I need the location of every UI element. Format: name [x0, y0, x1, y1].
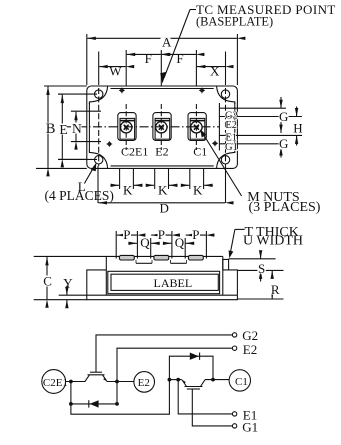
side baseplate — [87, 295, 238, 300]
dim P2 — [151, 234, 171, 236]
side label plate inner — [111, 274, 218, 290]
dim D — [99, 202, 226, 204]
wire G1 — [192, 389, 232, 426]
T/U leader — [235, 228, 245, 230]
terminal centre extension lines — [125, 50, 127, 86]
svg-text:(3 PLACES): (3 PLACES) — [249, 200, 321, 215]
wire rail right of Q1 — [205, 379, 229, 381]
svg-text:G: G — [279, 109, 288, 124]
side terminal bump 3 — [188, 255, 203, 260]
svg-text:K: K — [158, 182, 168, 197]
diode D2 — [89, 400, 99, 407]
diode D1 row — [169, 356, 213, 379]
dim N extension lines — [71, 110, 101, 112]
terminal C2E1 — [42, 370, 66, 394]
mounting hole top-right — [221, 90, 229, 98]
dim C extension line — [34, 299, 87, 301]
dim B — [47, 87, 49, 168]
svg-text:C2E1: C2E1 — [43, 377, 68, 389]
svg-text:E: E — [59, 122, 67, 137]
svg-text:B: B — [46, 121, 56, 137]
dim D extension lines — [97, 166, 99, 203]
svg-text:G1: G1 — [242, 420, 258, 435]
corner boss bottom-right — [217, 150, 235, 168]
terminal G1 — [232, 424, 236, 428]
dim C — [46, 257, 48, 299]
svg-text:W: W — [109, 63, 122, 78]
terminal 2 metal — [155, 118, 170, 139]
terminal E2 — [134, 372, 155, 393]
svg-text:P: P — [192, 227, 199, 242]
side label plate outer — [108, 271, 220, 293]
svg-text:E2: E2 — [225, 120, 237, 131]
dim S — [260, 250, 262, 258]
dim P1 — [117, 234, 137, 236]
node diode2 cathode — [115, 402, 119, 406]
svg-text:F: F — [145, 51, 152, 66]
dim W — [99, 66, 126, 68]
package outer outline — [87, 86, 238, 168]
dim X — [197, 66, 225, 68]
dim K3 — [181, 184, 189, 186]
signal pin E2 — [220, 116, 303, 118]
dim E — [61, 95, 63, 159]
position mark 3 — [107, 141, 113, 147]
horizontal centreline — [62, 126, 219, 128]
svg-text:E2: E2 — [243, 342, 257, 357]
side shelf between pedestals — [136, 262, 152, 264]
terminal 1 screw — [121, 122, 132, 133]
terminal E2 signal — [232, 346, 236, 350]
svg-text:E2: E2 — [155, 144, 168, 158]
terminal 3 centreline — [195, 104, 197, 150]
svg-text:C1: C1 — [235, 376, 248, 388]
svg-text:G1: G1 — [225, 142, 238, 153]
svg-text:(4 PLACES): (4 PLACES) — [45, 188, 114, 203]
node diode2 anode — [69, 402, 73, 406]
signal pin E1 — [220, 134, 303, 136]
dim Y — [66, 286, 68, 295]
side case body — [106, 256, 223, 295]
terminal 2 pedestal — [153, 113, 171, 141]
M nuts leader — [203, 133, 242, 196]
svg-text:X: X — [210, 63, 220, 78]
wire C2E1 to rail — [66, 381, 86, 383]
terminal 3 screw — [191, 122, 202, 133]
wire C2E1 drop — [71, 380, 169, 415]
dim K2 — [146, 184, 154, 186]
signal pin G2 — [220, 107, 287, 109]
svg-text:G: G — [279, 136, 288, 151]
svg-text:U WIDTH: U WIDTH — [243, 233, 303, 248]
mounting hole top-left — [95, 90, 103, 98]
corner boss top-right — [217, 86, 235, 104]
svg-text:R: R — [271, 282, 280, 297]
svg-text:D: D — [160, 201, 169, 216]
hole column extension lines top — [98, 52, 100, 86]
terminal 1 centreline — [125, 104, 127, 150]
terminal 2 screw — [156, 122, 167, 133]
terminal 1 metal — [120, 118, 135, 139]
hole centrelines — [58, 93, 97, 95]
rail IGBT Q1 — [169, 379, 182, 381]
node E1 tap — [176, 378, 180, 382]
side right tower — [223, 270, 238, 295]
terminal 2 centreline — [160, 104, 162, 150]
svg-text:C1: C1 — [193, 144, 207, 158]
dim G bottom arrows — [280, 147, 282, 158]
svg-text:H: H — [293, 121, 302, 136]
dim Q2 — [165, 242, 171, 244]
hole L leader — [84, 163, 96, 184]
wire G2 — [96, 335, 232, 372]
svg-text:N: N — [72, 121, 82, 136]
dim R extension line — [238, 298, 284, 300]
IGBT Q1 — [182, 380, 205, 389]
terminal G2 — [232, 333, 236, 337]
svg-text:A: A — [162, 35, 172, 50]
package inner rim top — [111, 88, 214, 90]
corner boss bottom-left — [89, 150, 107, 168]
svg-text:P: P — [123, 227, 130, 242]
side terminal bump 2 — [154, 255, 169, 260]
wire E1 signal — [178, 380, 232, 414]
svg-text:S: S — [258, 261, 265, 276]
mounting hole bottom-right — [221, 156, 229, 164]
dim G top arrows — [280, 97, 282, 108]
dim A — [87, 37, 237, 39]
corner boss top-left — [89, 86, 107, 104]
package inner rim left — [88, 103, 90, 151]
package inner rim bottom — [111, 165, 214, 167]
position mark 1 — [119, 88, 125, 94]
signal pin wall — [218, 103, 220, 151]
svg-text:P: P — [158, 227, 165, 242]
dim E extension lines — [58, 93, 62, 95]
side case top line — [34, 255, 223, 257]
dim A extension lines — [86, 34, 88, 85]
dim Y extension line — [59, 294, 87, 296]
TC measured point leader — [160, 10, 196, 84]
terminal 3 metal — [190, 118, 205, 139]
node C1 diode junction — [211, 378, 215, 382]
dim H arrows — [296, 107, 298, 117]
side terminal bump 1 — [119, 255, 134, 260]
dim Q1 — [131, 242, 137, 244]
svg-text:E2: E2 — [138, 377, 150, 389]
dim K extension lines — [119, 169, 121, 189]
dim F right — [162, 53, 196, 55]
svg-text:Q: Q — [140, 235, 150, 250]
IGBT Q2 — [85, 372, 107, 381]
svg-text:C2E1: C2E1 — [121, 144, 148, 158]
terminal E1 — [232, 412, 236, 416]
terminal 3 pedestal — [188, 113, 206, 141]
svg-text:K: K — [193, 182, 203, 197]
terminal 1 pedestal — [118, 113, 136, 141]
diode D1 — [190, 353, 200, 360]
wire rail right of Q2 — [107, 381, 134, 383]
svg-text:F: F — [176, 51, 183, 66]
svg-text:Y: Y — [63, 275, 73, 290]
dim S extension lines — [229, 258, 276, 260]
node C2E1 junction — [69, 380, 73, 384]
dim K1 — [111, 184, 120, 186]
dim R — [271, 270, 273, 278]
svg-text:(BASEPLATE): (BASEPLATE) — [196, 15, 273, 29]
dim N — [75, 112, 77, 141]
node Q1 left — [168, 378, 172, 382]
package inner rim right — [234, 103, 236, 151]
label 4 PLACES — [44, 188, 115, 203]
mounting hole bottom-left — [95, 156, 103, 164]
dim B extension lines — [44, 85, 87, 87]
side left tower — [87, 270, 107, 295]
terminal C1 — [229, 370, 250, 391]
dim F left — [127, 53, 161, 55]
svg-text:C: C — [43, 274, 52, 289]
pedestal edge extension lines — [115, 231, 117, 259]
dim P3 — [186, 234, 206, 236]
svg-text:Q: Q — [175, 235, 185, 250]
side signal pin — [223, 259, 229, 270]
diode D2 row — [71, 382, 117, 404]
wire E2 signal — [117, 348, 232, 381]
node E2 riser — [115, 380, 119, 384]
signal pin G1 — [220, 143, 287, 145]
position mark 4 — [212, 141, 218, 147]
position mark 2 — [199, 88, 205, 94]
svg-text:LABEL: LABEL — [154, 276, 193, 290]
svg-text:K: K — [123, 182, 133, 197]
